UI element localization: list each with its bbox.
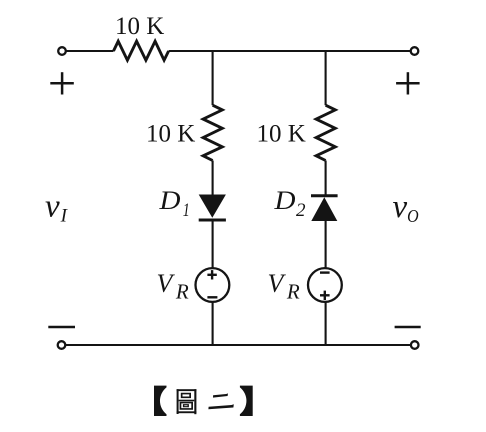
resistor left shunt 10K (vertical) [203,105,222,160]
wire right branch upper [325,51,327,105]
wire right branch mid (resistor to diode) [325,161,327,196]
diode D2 (pointing up) [311,196,338,221]
plus sign left (input polarity) [50,72,74,94]
caption character 二 [208,393,233,409]
diode D1 (pointing down) [199,195,226,221]
terminal bottom-left [58,341,66,349]
wire bottom rail [65,344,411,346]
minus sign left (input polarity) [48,326,75,329]
svg-text:10 K: 10 K [146,120,195,147]
minus sign right (output polarity) [395,326,421,329]
wire left branch upper [212,51,214,105]
resistor R series 10K (horizontal) [114,41,169,60]
wire top-left to resistor [66,50,114,52]
wire right branch (diode to source) [325,221,327,268]
source VR left (battery circle, + top) [196,268,230,302]
svg-text:D1: D1 [158,186,189,221]
caption bracket right 】 [240,386,253,416]
wire left branch bottom (source to rail) [212,303,214,346]
svg-text:10 K: 10 K [115,13,164,40]
svg-text:vI: vI [45,188,69,226]
svg-text:vO: vO [393,189,419,226]
wire left branch mid (resistor to diode) [212,161,214,196]
wire left branch (diode to source) [212,220,214,268]
wire right branch bottom (source to rail) [325,303,327,346]
caption character 圖 [177,389,197,414]
wire top rail [169,50,411,52]
svg-text:VR: VR [157,269,189,304]
svg-text:10 K: 10 K [257,120,306,147]
terminal top-left [58,47,66,55]
terminal bottom-right [411,341,419,349]
plus sign right (output polarity) [396,72,420,94]
svg-text:VR: VR [268,269,300,304]
resistor right shunt 10K (vertical) [316,105,335,160]
svg-text:D2: D2 [273,186,306,221]
caption bracket left 【 [154,386,167,416]
source VR right (battery circle, - top) [308,268,342,302]
terminal top-right [411,47,419,55]
